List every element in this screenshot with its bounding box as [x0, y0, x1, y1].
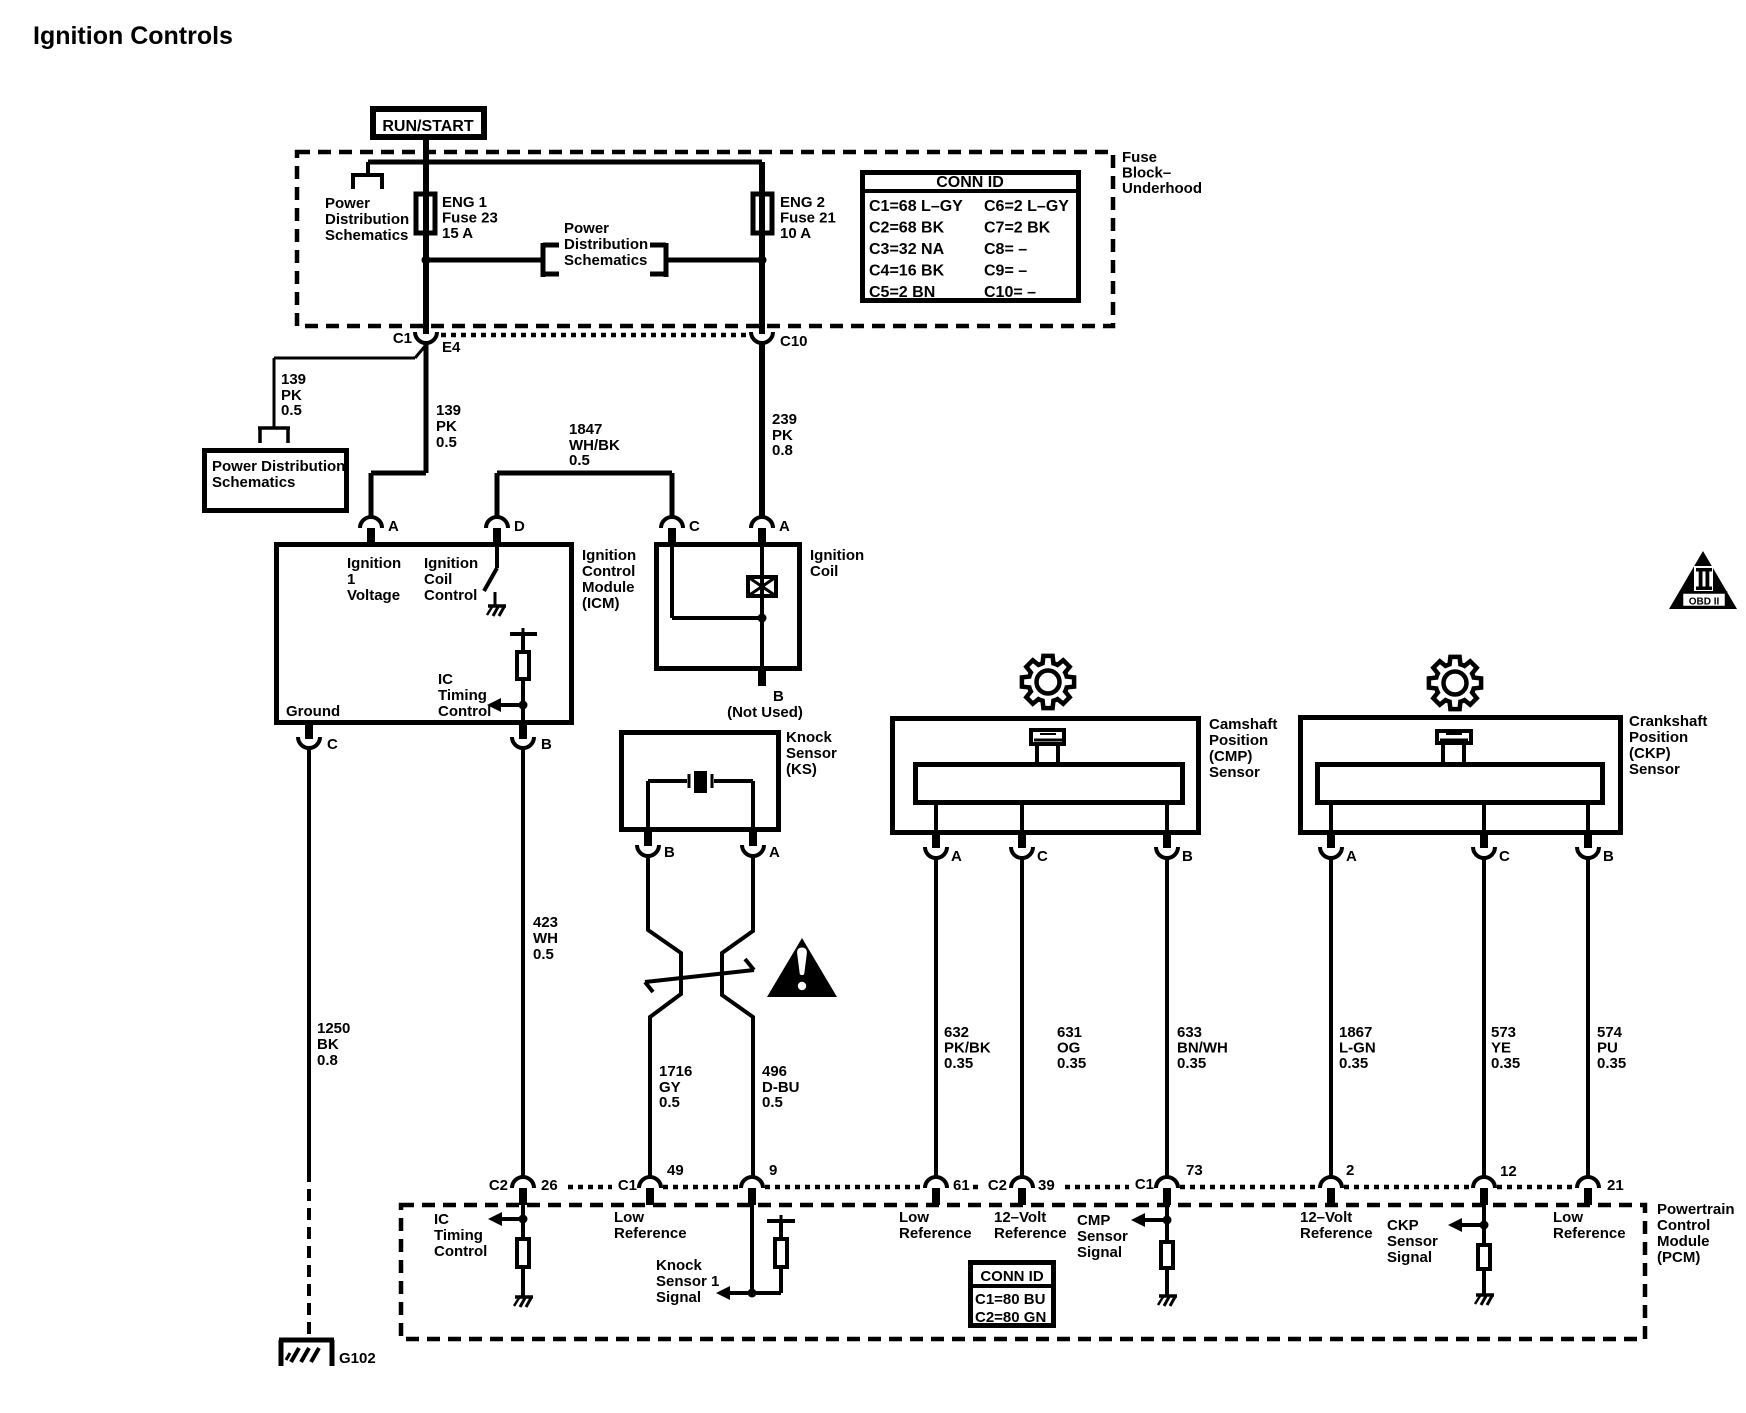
- svg-text:Fuse: Fuse: [1122, 149, 1157, 166]
- svg-text:0.35: 0.35: [1177, 1055, 1206, 1072]
- svg-text:A: A: [779, 518, 790, 535]
- svg-text:Coil: Coil: [424, 571, 452, 588]
- svg-text:C: C: [1037, 848, 1048, 865]
- svg-text:Distribution: Distribution: [325, 211, 409, 228]
- svg-text:C8= –: C8= –: [984, 241, 1027, 258]
- svg-text:0.5: 0.5: [762, 1094, 783, 1111]
- svg-text:496: 496: [762, 1063, 787, 1080]
- svg-text:Reference: Reference: [994, 1225, 1067, 1242]
- svg-text:Ignition: Ignition: [424, 555, 478, 572]
- svg-text:Module: Module: [582, 579, 635, 596]
- svg-text:Power Distribution: Power Distribution: [212, 458, 345, 475]
- svg-text:Schematics: Schematics: [564, 252, 647, 269]
- svg-text:IC: IC: [438, 671, 453, 688]
- svg-text:CKP: CKP: [1387, 1217, 1419, 1234]
- svg-text:0.35: 0.35: [1491, 1055, 1520, 1072]
- svg-text:10 A: 10 A: [780, 225, 811, 242]
- svg-text:IC: IC: [434, 1211, 449, 1228]
- svg-text:632: 632: [944, 1024, 969, 1041]
- svg-text:C: C: [689, 518, 700, 535]
- svg-text:Sensor: Sensor: [1077, 1228, 1128, 1245]
- svg-text:Camshaft: Camshaft: [1209, 716, 1277, 733]
- svg-text:A: A: [1346, 848, 1357, 865]
- svg-text:C2=68 BK: C2=68 BK: [869, 220, 945, 237]
- svg-text:631: 631: [1057, 1024, 1082, 1041]
- svg-text:2: 2: [1346, 1162, 1354, 1179]
- svg-text:0.35: 0.35: [1057, 1055, 1086, 1072]
- svg-text:ENG 1: ENG 1: [442, 194, 487, 211]
- svg-text:15 A: 15 A: [442, 225, 473, 242]
- svg-text:0.35: 0.35: [944, 1055, 973, 1072]
- svg-text:1716: 1716: [659, 1063, 692, 1080]
- svg-text:BK: BK: [317, 1036, 339, 1053]
- svg-text:PK: PK: [436, 418, 457, 435]
- svg-text:L-GN: L-GN: [1339, 1040, 1376, 1057]
- svg-text:1250: 1250: [317, 1020, 350, 1037]
- svg-text:PK/BK: PK/BK: [944, 1040, 991, 1057]
- svg-text:Position: Position: [1209, 732, 1268, 749]
- svg-text:C3=32 NA: C3=32 NA: [869, 241, 945, 258]
- svg-text:Ignition: Ignition: [810, 547, 864, 564]
- svg-text:Powertrain: Powertrain: [1657, 1201, 1735, 1218]
- svg-text:B: B: [541, 736, 552, 753]
- svg-text:YE: YE: [1491, 1040, 1511, 1057]
- svg-text:0.8: 0.8: [772, 442, 793, 459]
- svg-text:Underhood: Underhood: [1122, 180, 1202, 197]
- svg-text:(CMP): (CMP): [1209, 748, 1252, 765]
- svg-text:Voltage: Voltage: [347, 587, 400, 604]
- svg-text:Reference: Reference: [899, 1225, 972, 1242]
- svg-text:CONN ID: CONN ID: [936, 174, 1004, 191]
- svg-text:(PCM): (PCM): [1657, 1249, 1700, 1266]
- svg-text:D: D: [514, 518, 525, 535]
- svg-text:B: B: [1603, 848, 1614, 865]
- svg-text:PU: PU: [1597, 1040, 1618, 1057]
- svg-text:0.35: 0.35: [1339, 1055, 1368, 1072]
- svg-text:Reference: Reference: [1553, 1225, 1626, 1242]
- svg-text:Sensor 1: Sensor 1: [656, 1273, 719, 1290]
- svg-text:C5=2 BN: C5=2 BN: [869, 284, 935, 301]
- svg-text:Signal: Signal: [1387, 1249, 1432, 1266]
- svg-text:12–Volt: 12–Volt: [1300, 1209, 1352, 1226]
- svg-text:OG: OG: [1057, 1040, 1080, 1057]
- svg-text:CONN ID: CONN ID: [980, 1268, 1044, 1285]
- svg-text:B: B: [1182, 848, 1193, 865]
- svg-text:(CKP): (CKP): [1629, 745, 1671, 762]
- svg-text:Control: Control: [434, 1243, 487, 1260]
- svg-text:Signal: Signal: [1077, 1244, 1122, 1261]
- svg-text:Control: Control: [582, 563, 635, 580]
- svg-text:1847: 1847: [569, 421, 602, 438]
- svg-text:12–Volt: 12–Volt: [994, 1209, 1046, 1226]
- svg-text:49: 49: [667, 1162, 684, 1179]
- svg-text:C10: C10: [780, 333, 808, 350]
- svg-text:C1: C1: [1135, 1176, 1154, 1193]
- svg-text:C1=68 L–GY: C1=68 L–GY: [869, 198, 963, 215]
- svg-text:Timing: Timing: [438, 687, 487, 704]
- svg-text:Reference: Reference: [1300, 1225, 1373, 1242]
- svg-text:Reference: Reference: [614, 1225, 687, 1242]
- svg-text:Signal: Signal: [656, 1289, 701, 1306]
- svg-text:21: 21: [1607, 1177, 1624, 1194]
- svg-text:A: A: [951, 848, 962, 865]
- svg-text:C2: C2: [988, 1177, 1007, 1194]
- svg-text:139: 139: [281, 371, 306, 388]
- svg-text:(ICM): (ICM): [582, 595, 620, 612]
- svg-text:Coil: Coil: [810, 563, 838, 580]
- svg-text:574: 574: [1597, 1024, 1623, 1041]
- svg-text:Distribution: Distribution: [564, 236, 648, 253]
- svg-text:12: 12: [1500, 1163, 1517, 1180]
- svg-text:Crankshaft: Crankshaft: [1629, 713, 1707, 730]
- svg-text:Low: Low: [1553, 1209, 1583, 1226]
- svg-text:A: A: [769, 844, 780, 861]
- svg-text:Control: Control: [424, 587, 477, 604]
- svg-text:1867: 1867: [1339, 1024, 1372, 1041]
- svg-text:0.5: 0.5: [281, 402, 302, 419]
- svg-text:Low: Low: [614, 1209, 644, 1226]
- svg-text:C4=16 BK: C4=16 BK: [869, 263, 945, 280]
- svg-text:WH: WH: [533, 930, 558, 947]
- svg-text:1: 1: [347, 571, 355, 588]
- svg-text:633: 633: [1177, 1024, 1202, 1041]
- svg-text:Fuse 23: Fuse 23: [442, 210, 498, 227]
- svg-text:CMP: CMP: [1077, 1212, 1110, 1229]
- svg-text:Module: Module: [1657, 1233, 1710, 1250]
- svg-text:C9= –: C9= –: [984, 263, 1027, 280]
- svg-text:Power: Power: [325, 195, 370, 212]
- svg-text:RUN/START: RUN/START: [382, 118, 473, 135]
- svg-text:Knock: Knock: [786, 729, 833, 746]
- svg-text:Position: Position: [1629, 729, 1688, 746]
- svg-text:C1: C1: [618, 1177, 637, 1194]
- svg-text:C7=2 BK: C7=2 BK: [984, 220, 1051, 237]
- svg-text:(KS): (KS): [786, 761, 817, 778]
- svg-text:Block–: Block–: [1122, 165, 1171, 182]
- svg-text:0.5: 0.5: [533, 946, 554, 963]
- svg-text:0.5: 0.5: [659, 1094, 680, 1111]
- svg-text:ENG 2: ENG 2: [780, 194, 825, 211]
- svg-text:Fuse 21: Fuse 21: [780, 210, 836, 227]
- svg-text:0.8: 0.8: [317, 1052, 338, 1069]
- svg-text:C6=2 L–GY: C6=2 L–GY: [984, 198, 1069, 215]
- svg-text:73: 73: [1186, 1162, 1203, 1179]
- svg-text:C10= –: C10= –: [984, 284, 1036, 301]
- svg-text:39: 39: [1038, 1177, 1055, 1194]
- svg-text:Ground: Ground: [286, 703, 340, 720]
- svg-text:C2=80 GN: C2=80 GN: [975, 1309, 1046, 1326]
- svg-text:A: A: [388, 518, 399, 535]
- svg-text:Sensor: Sensor: [1629, 761, 1680, 778]
- svg-text:C2: C2: [489, 1177, 508, 1194]
- svg-text:139: 139: [436, 402, 461, 419]
- svg-text:Schematics: Schematics: [212, 474, 295, 491]
- svg-text:Ignition: Ignition: [582, 547, 636, 564]
- svg-text:C1=80 BU: C1=80 BU: [975, 1291, 1045, 1308]
- svg-text:0.5: 0.5: [436, 434, 457, 451]
- svg-text:Knock: Knock: [656, 1257, 703, 1274]
- svg-text:Timing: Timing: [434, 1227, 483, 1244]
- svg-text:C1: C1: [393, 330, 412, 347]
- svg-text:C: C: [1499, 848, 1510, 865]
- svg-text:Sensor: Sensor: [1387, 1233, 1438, 1250]
- svg-text:61: 61: [953, 1177, 970, 1194]
- svg-text:G102: G102: [339, 1350, 376, 1367]
- svg-text:Ignition: Ignition: [347, 555, 401, 572]
- svg-text:Sensor: Sensor: [786, 745, 837, 762]
- svg-text:423: 423: [533, 914, 558, 931]
- svg-text:Control: Control: [438, 703, 491, 720]
- svg-text:Ignition Controls: Ignition Controls: [33, 22, 233, 50]
- svg-text:B: B: [773, 688, 784, 705]
- svg-text:Power: Power: [564, 220, 609, 237]
- svg-text:Control: Control: [1657, 1217, 1710, 1234]
- svg-text:Sensor: Sensor: [1209, 764, 1260, 781]
- svg-text:239: 239: [772, 411, 797, 428]
- svg-text:OBD II: OBD II: [1689, 597, 1720, 608]
- svg-text:9: 9: [769, 1162, 777, 1179]
- svg-text:B: B: [664, 844, 675, 861]
- svg-text:573: 573: [1491, 1024, 1516, 1041]
- svg-text:0.5: 0.5: [569, 452, 590, 469]
- svg-text:Low: Low: [899, 1209, 929, 1226]
- svg-text:0.35: 0.35: [1597, 1055, 1626, 1072]
- svg-text:C: C: [327, 736, 338, 753]
- svg-text:26: 26: [541, 1177, 558, 1194]
- svg-text:BN/WH: BN/WH: [1177, 1040, 1228, 1057]
- svg-text:(Not Used): (Not Used): [727, 704, 803, 721]
- svg-text:Schematics: Schematics: [325, 227, 408, 244]
- svg-text:E4: E4: [442, 339, 461, 356]
